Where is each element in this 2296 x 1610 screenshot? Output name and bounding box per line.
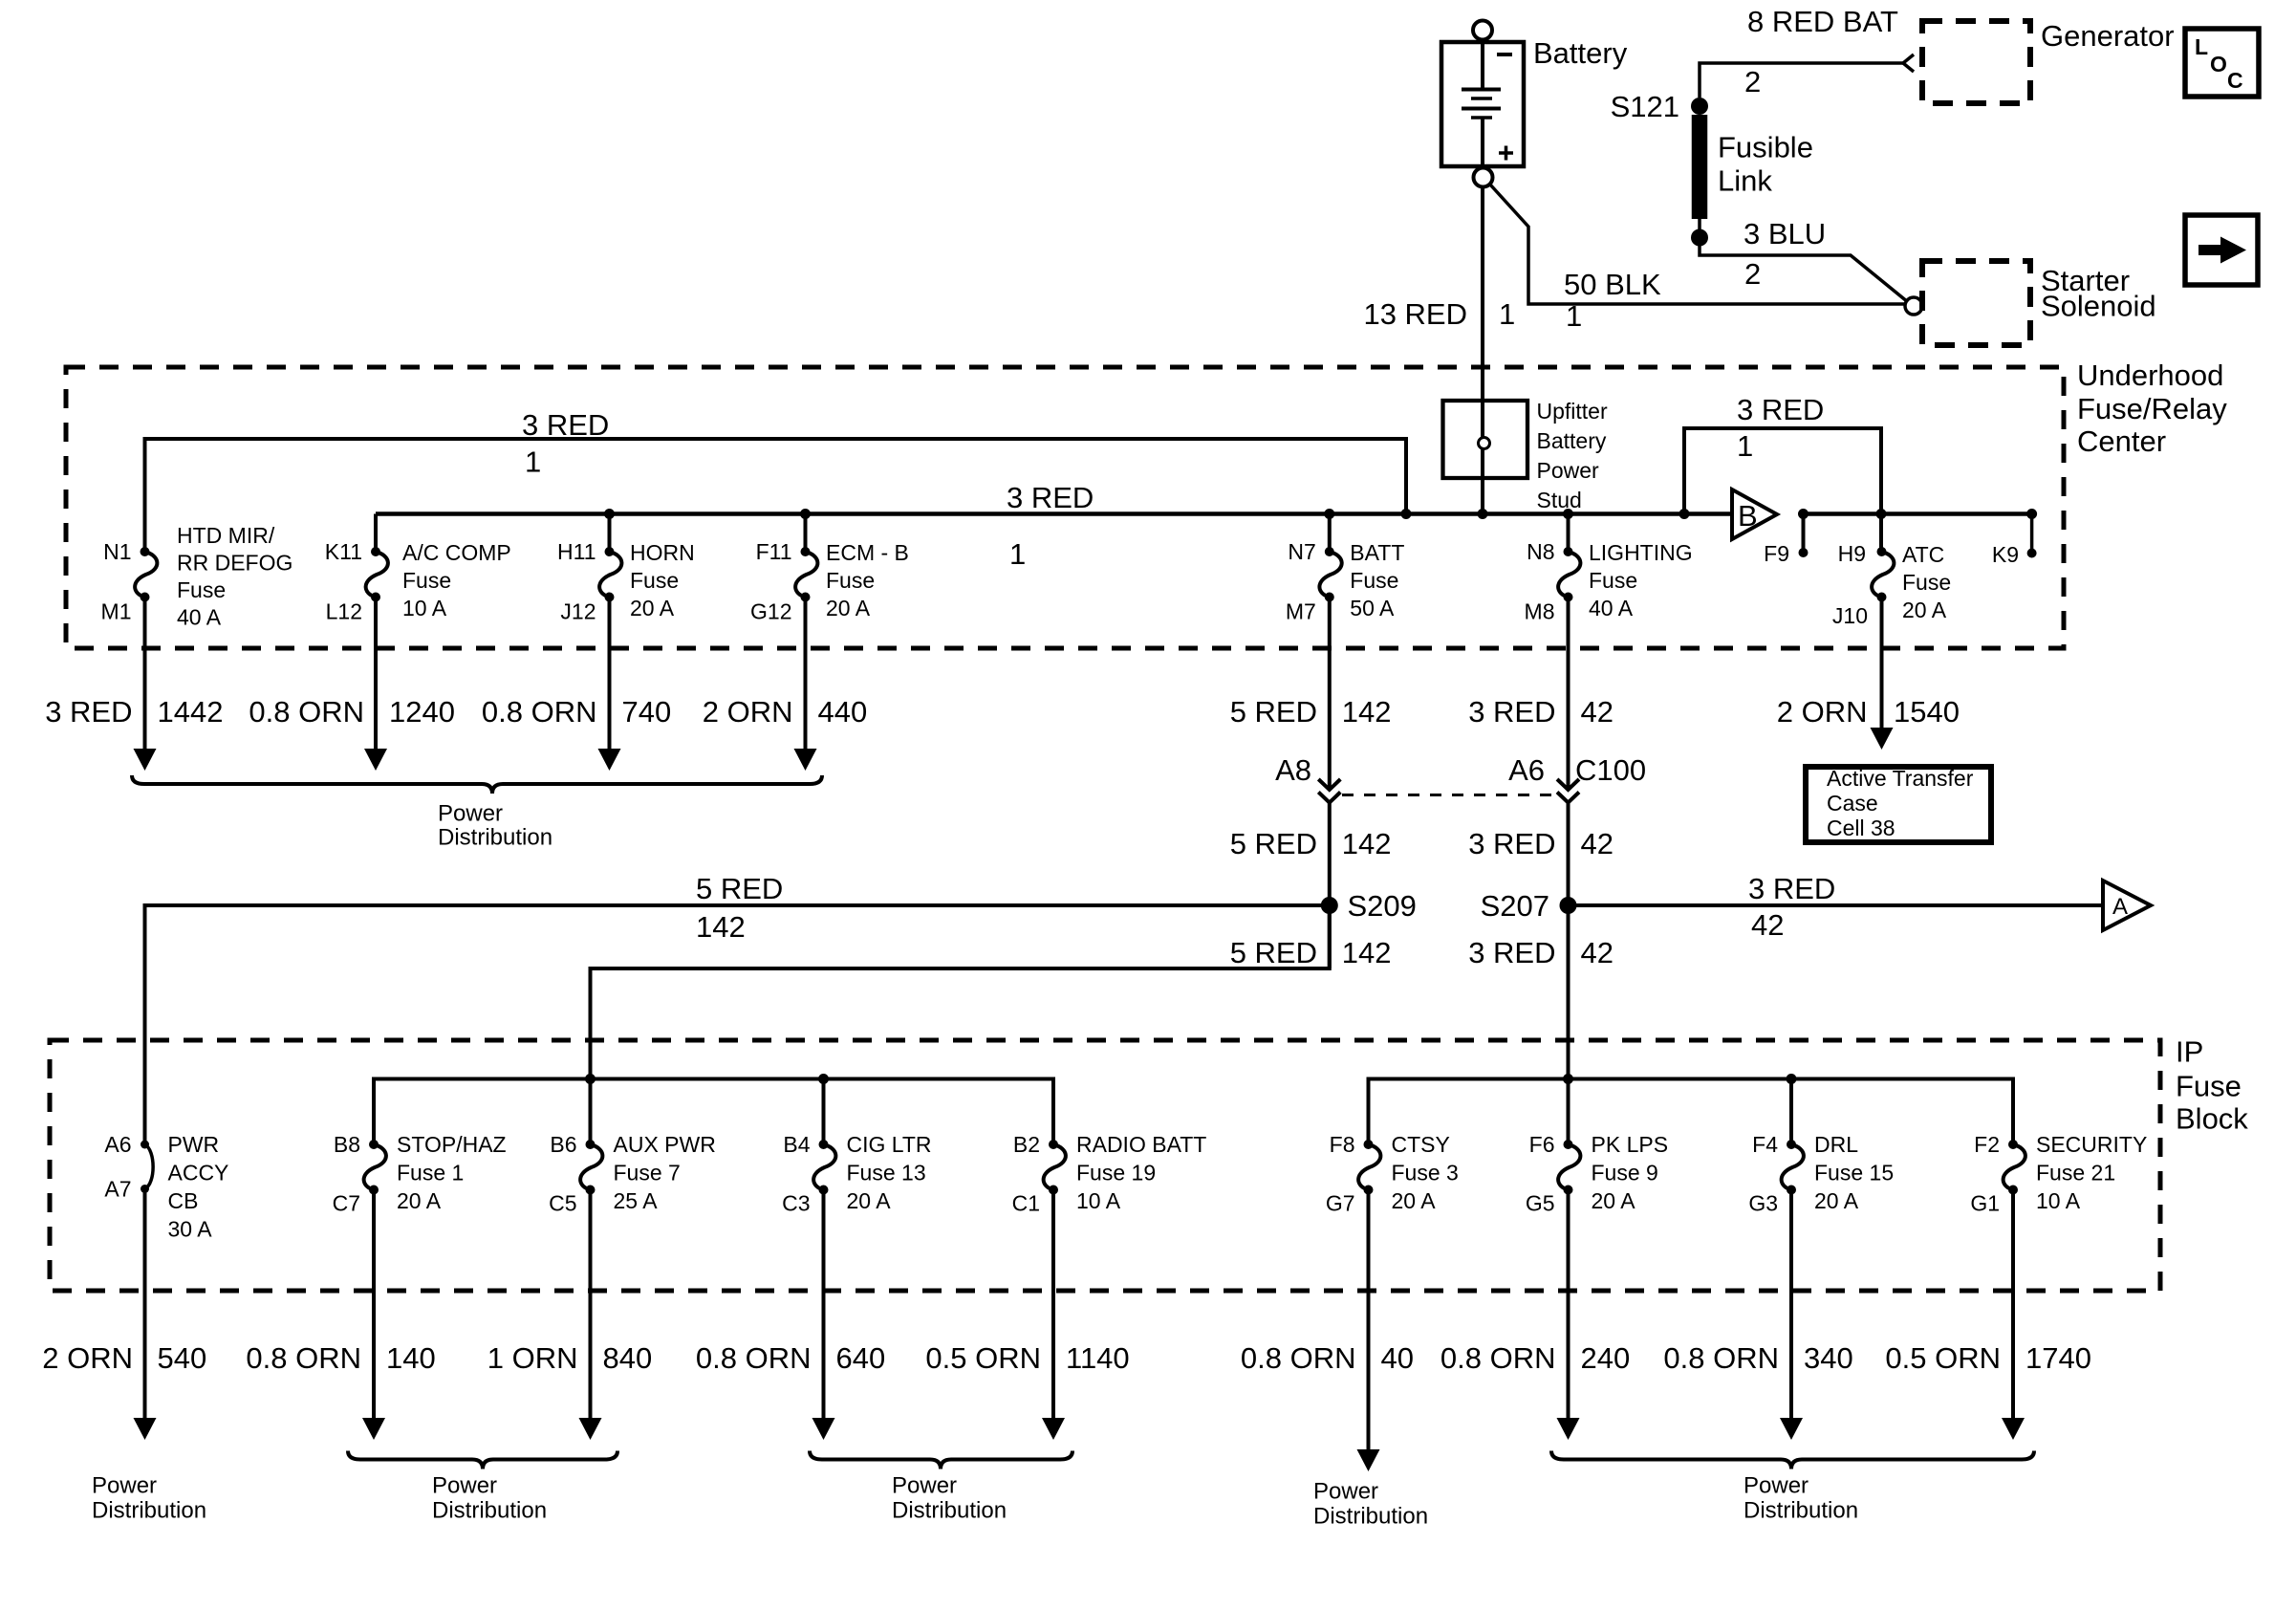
svg-text:DRL: DRL <box>1814 1132 1858 1157</box>
underhood fuse/relay center dashed box <box>66 367 2064 648</box>
svg-text:Fuse 7: Fuse 7 <box>614 1161 681 1186</box>
arrowhead C3 <box>812 1418 835 1440</box>
svg-text:Distribution: Distribution <box>892 1498 1007 1524</box>
ip branch bus right (ctsy to security) <box>1369 1079 2014 1145</box>
wire G7 to power distribution <box>1367 1190 1371 1450</box>
svg-text:640: 640 <box>836 1341 886 1375</box>
svg-text:20 A: 20 A <box>1902 598 1947 622</box>
fuse K11/L12 A/C COMP <box>366 547 388 602</box>
fuse B4/C3 CIG LTR <box>813 1140 835 1195</box>
wire 3 RED connector to S207 <box>1567 803 1570 1079</box>
svg-text:5 RED: 5 RED <box>1230 827 1317 860</box>
underhood bus wire 3 RED circuit 1 <box>376 511 1732 516</box>
wire 3 RED circuit 42 M8 to connector C100 A6 <box>1567 598 1570 791</box>
wire C7 to power distribution <box>372 1190 376 1419</box>
wire bus to fuse N7 <box>1328 514 1332 553</box>
arrowhead G12 <box>794 749 817 771</box>
label HTD MIR/RR DEFOG Fuse 40 A <box>177 523 292 630</box>
wire 8 RED BAT splice to generator <box>1700 63 1903 98</box>
wire G3 to power distribution <box>1789 1190 1793 1419</box>
svg-text:N7: N7 <box>1288 539 1315 564</box>
svg-text:J10: J10 <box>1832 603 1868 628</box>
arrowhead C5 <box>579 1418 602 1440</box>
svg-text:50 A: 50 A <box>1350 596 1395 620</box>
svg-text:STOP/HAZ: STOP/HAZ <box>397 1132 507 1157</box>
svg-text:20 A: 20 A <box>1814 1188 1859 1213</box>
svg-text:F8: F8 <box>1330 1132 1355 1157</box>
junction K9 bus end <box>2026 509 2037 519</box>
svg-text:142: 142 <box>1342 936 1392 969</box>
wire to F4 <box>1789 1079 1793 1145</box>
svg-text:C1: C1 <box>1012 1191 1040 1216</box>
svg-text:Solenoid: Solenoid <box>2041 290 2156 323</box>
label CIG LTR Fuse 13 20 A <box>847 1132 932 1213</box>
fuse B6/C5 AUX PWR <box>580 1140 602 1195</box>
svg-text:0.5 ORN: 0.5 ORN <box>1885 1341 2001 1375</box>
wire L12 to power distribution <box>374 598 378 750</box>
svg-text:3 RED: 3 RED <box>1468 936 1555 969</box>
off-page triangle A <box>2103 881 2151 930</box>
wire bus corner to A/C COMP fuse <box>374 514 378 553</box>
svg-text:H9: H9 <box>1838 541 1866 566</box>
svg-text:A6: A6 <box>1508 753 1545 787</box>
arrowhead G1 <box>2002 1418 2025 1440</box>
svg-text:3 RED: 3 RED <box>1468 695 1555 729</box>
svg-text:Power: Power <box>1744 1473 1809 1499</box>
svg-text:A7: A7 <box>104 1177 131 1202</box>
svg-text:Stud: Stud <box>1537 488 1582 512</box>
fusible link element <box>1692 115 1708 219</box>
svg-text:1442: 1442 <box>158 695 224 729</box>
connector chevron at generator <box>1903 54 1914 72</box>
svg-text:10 A: 10 A <box>2036 1188 2081 1213</box>
svg-text:Distribution: Distribution <box>432 1498 547 1524</box>
svg-text:Fuse 21: Fuse 21 <box>2036 1161 2115 1186</box>
label RADIO BATT Fuse 19 10 A <box>1076 1132 1206 1213</box>
ip fuse block dashed box <box>50 1040 2160 1291</box>
label A/C COMP Fuse 10 A <box>402 540 511 620</box>
junction on bus <box>604 509 615 519</box>
svg-text:K9: K9 <box>1992 542 2019 567</box>
wire J12 to power distribution <box>608 598 612 750</box>
svg-text:20 A: 20 A <box>1392 1188 1437 1213</box>
brace power distribution (underhood) <box>132 775 822 794</box>
label LIGHTING Fuse 40 A <box>1589 540 1693 620</box>
wire C3 to power distribution <box>822 1190 826 1419</box>
svg-text:Active Transfer: Active Transfer <box>1827 766 1974 791</box>
svg-text:2 ORN: 2 ORN <box>42 1341 133 1375</box>
svg-text:3 RED: 3 RED <box>45 695 132 729</box>
svg-text:1540: 1540 <box>1894 695 1960 729</box>
svg-text:G3: G3 <box>1748 1191 1778 1216</box>
svg-text:C7: C7 <box>333 1191 360 1216</box>
svg-text:M7: M7 <box>1286 599 1316 624</box>
starter solenoid terminal ring <box>1905 297 1922 315</box>
svg-text:Fuse 1: Fuse 1 <box>397 1161 464 1186</box>
svg-text:1240: 1240 <box>389 695 455 729</box>
svg-text:5 RED: 5 RED <box>696 872 783 905</box>
wire to F6 <box>1567 1079 1570 1145</box>
label DRL Fuse 15 20 A <box>1814 1132 1894 1213</box>
svg-text:F11: F11 <box>756 539 792 564</box>
label CTSY Fuse 3 20 A <box>1392 1132 1459 1213</box>
svg-text:B: B <box>1738 499 1758 533</box>
svg-text:Upfitter: Upfitter <box>1537 399 1608 424</box>
svg-text:540: 540 <box>158 1341 207 1375</box>
svg-text:30 A: 30 A <box>168 1217 213 1242</box>
svg-text:3 RED: 3 RED <box>522 408 609 442</box>
svg-text:20 A: 20 A <box>847 1188 892 1213</box>
svg-text:0.8 ORN: 0.8 ORN <box>696 1341 812 1375</box>
LOC legend box <box>2185 29 2259 97</box>
wire G12 to power distribution <box>804 598 808 750</box>
svg-text:F4: F4 <box>1752 1132 1778 1157</box>
svg-text:Fuse 13: Fuse 13 <box>847 1161 926 1186</box>
svg-text:5 RED: 5 RED <box>1230 695 1317 729</box>
fuse H11/J12 HORN <box>599 547 621 602</box>
svg-text:A/C COMP: A/C COMP <box>402 540 511 565</box>
svg-text:F2: F2 <box>1974 1132 2000 1157</box>
svg-text:Power: Power <box>92 1473 157 1499</box>
arrowhead G5 <box>1557 1418 1580 1440</box>
svg-text:Fuse 19: Fuse 19 <box>1076 1161 1156 1186</box>
svg-text:Fuse 9: Fuse 9 <box>1592 1161 1658 1186</box>
arrowhead 1540 <box>1871 728 1894 750</box>
wire 3 RED circuit 1 upper feed to HTD MIR fuse <box>145 439 1407 552</box>
svg-text:G5: G5 <box>1526 1191 1555 1216</box>
svg-text:1: 1 <box>1566 299 1582 333</box>
svg-text:50 BLK: 50 BLK <box>1564 268 1661 301</box>
fuse B2/C1 RADIO BATT <box>1044 1140 1066 1195</box>
svg-text:142: 142 <box>1342 695 1392 729</box>
dashed connector link C100 <box>1342 794 1556 796</box>
svg-text:3 BLU: 3 BLU <box>1744 217 1826 250</box>
connector C100 cavity A8 <box>1318 779 1340 790</box>
fuse H9/J10 ATC 20A <box>1872 547 1894 602</box>
svg-text:20 A: 20 A <box>630 596 675 620</box>
label SECURITY Fuse 21 10 A <box>2036 1132 2147 1213</box>
svg-text:SECURITY: SECURITY <box>2036 1132 2147 1157</box>
svg-text:0.8 ORN: 0.8 ORN <box>482 695 597 729</box>
label ATC Fuse 20 A <box>1902 542 1951 622</box>
svg-text:3 RED: 3 RED <box>1007 481 1094 514</box>
wire 5 RED connector to S209 <box>1328 803 1332 969</box>
connector C100 cavity A6 <box>1557 779 1579 790</box>
arrowhead M1 <box>134 749 157 771</box>
wire 3 BLU fusible link to starter solenoid <box>1700 219 1908 302</box>
svg-text:3 RED: 3 RED <box>1748 872 1835 905</box>
wire to B6 <box>589 1079 593 1145</box>
svg-text:RADIO BATT: RADIO BATT <box>1076 1132 1206 1157</box>
legend forward-arrow box <box>2185 215 2258 285</box>
svg-text:N8: N8 <box>1527 539 1554 564</box>
svg-text:Fuse: Fuse <box>826 568 875 593</box>
svg-text:G1: G1 <box>1970 1191 2000 1216</box>
svg-text:Distribution: Distribution <box>438 825 552 851</box>
svg-text:HORN: HORN <box>630 540 695 565</box>
junction B4 <box>818 1074 829 1084</box>
wire 5 RED S209 drop to IP stop/haz bus <box>591 905 1330 1079</box>
svg-text:Fuse/Relay: Fuse/Relay <box>2077 392 2227 425</box>
wire bus to fuse H11 <box>608 514 612 553</box>
svg-text:1: 1 <box>1737 429 1753 463</box>
svg-text:40 A: 40 A <box>177 605 222 630</box>
svg-text:40: 40 <box>1381 1341 1414 1375</box>
svg-text:Power: Power <box>438 801 503 827</box>
ip branch bus left (stop/haz to radio batt) <box>374 1079 1053 1145</box>
wire C1 to power distribution <box>1051 1190 1055 1419</box>
svg-text:0.8 ORN: 0.8 ORN <box>249 695 364 729</box>
svg-text:25 A: 25 A <box>614 1188 659 1213</box>
svg-text:Cell 38: Cell 38 <box>1827 816 1895 840</box>
svg-text:1: 1 <box>525 446 541 479</box>
svg-text:0.8 ORN: 0.8 ORN <box>1663 1341 1779 1375</box>
svg-text:PK LPS: PK LPS <box>1592 1132 1669 1157</box>
svg-text:S209: S209 <box>1348 889 1417 923</box>
svg-text:S121: S121 <box>1611 90 1679 123</box>
wire 13 RED battery to underhood bus <box>1481 187 1484 514</box>
svg-text:1 ORN: 1 ORN <box>487 1341 578 1375</box>
svg-text:L: L <box>2195 34 2208 59</box>
junction at battery feed <box>1478 509 1488 519</box>
svg-text:40 A: 40 A <box>1589 596 1634 620</box>
svg-text:Block: Block <box>2176 1102 2248 1136</box>
svg-text:B4: B4 <box>783 1132 810 1157</box>
svg-text:20 A: 20 A <box>1592 1188 1636 1213</box>
svg-text:Distribution: Distribution <box>1744 1498 1858 1524</box>
junction on bus <box>1324 509 1334 519</box>
svg-text:20 A: 20 A <box>397 1188 442 1213</box>
wire G5 to power distribution <box>1567 1190 1570 1419</box>
svg-text:A8: A8 <box>1275 753 1311 787</box>
fuse F11/G12 ECM - B <box>795 547 817 602</box>
fuse N8/M8 LIGHTING <box>1558 547 1580 602</box>
svg-text:B8: B8 <box>334 1132 360 1157</box>
fusible link lower splice dot <box>1691 229 1708 247</box>
pin K9 <box>2027 549 2037 558</box>
svg-text:5 RED: 5 RED <box>1230 936 1317 969</box>
label STOP/HAZ Fuse 1 20 A <box>397 1132 507 1213</box>
wire bus to fuse F11 <box>804 514 808 553</box>
svg-text:42: 42 <box>1581 695 1614 729</box>
svg-text:140: 140 <box>386 1341 436 1375</box>
wire bus right of relay B <box>1804 511 2032 516</box>
junction on bus <box>800 509 811 519</box>
svg-text:0.8 ORN: 0.8 ORN <box>1241 1341 1356 1375</box>
wire to B4 <box>822 1079 826 1145</box>
generator dashed box <box>1922 21 2030 103</box>
svg-text:AUX PWR: AUX PWR <box>614 1132 716 1157</box>
svg-text:F9: F9 <box>1764 541 1789 566</box>
svg-text:1: 1 <box>1499 297 1515 331</box>
svg-text:Power: Power <box>892 1473 957 1499</box>
svg-text:Distribution: Distribution <box>92 1498 206 1524</box>
svg-text:C5: C5 <box>549 1191 576 1216</box>
svg-text:2 ORN: 2 ORN <box>703 695 793 729</box>
svg-text:Fuse 3: Fuse 3 <box>1392 1161 1459 1186</box>
svg-text:1740: 1740 <box>2025 1341 2091 1375</box>
label ECM - B Fuse 20 A <box>826 540 909 620</box>
svg-text:0.8 ORN: 0.8 ORN <box>246 1341 361 1375</box>
svg-text:440: 440 <box>818 695 868 729</box>
fuse N1/M1 HTD MIR RR DEFOG 40A <box>135 547 157 602</box>
svg-text:240: 240 <box>1581 1341 1631 1375</box>
wire bus to ATC fuse <box>1879 514 1883 553</box>
svg-text:C: C <box>2227 68 2243 93</box>
fuse B8/C7 STOP/HAZ <box>364 1140 386 1195</box>
svg-text:142: 142 <box>696 910 746 944</box>
svg-text:740: 740 <box>622 695 672 729</box>
svg-text:Case: Case <box>1827 791 1878 816</box>
svg-text:CB: CB <box>168 1188 199 1213</box>
svg-text:Underhood: Underhood <box>2077 359 2223 392</box>
svg-text:3 RED: 3 RED <box>1737 393 1824 426</box>
fuse F8/G7 CTSY <box>1358 1140 1380 1195</box>
svg-text:Fuse 15: Fuse 15 <box>1814 1161 1894 1186</box>
wire 50 BLK battery to starter solenoid <box>1490 185 1906 305</box>
arrowhead G3 <box>1780 1418 1803 1440</box>
upfitter battery power stud box <box>1443 401 1528 478</box>
svg-text:L12: L12 <box>326 599 362 624</box>
fuse F6/G5 PK LPS <box>1558 1140 1580 1195</box>
arrowhead J12 <box>598 749 621 771</box>
svg-text:BATT: BATT <box>1350 540 1404 565</box>
svg-text:B2: B2 <box>1013 1132 1040 1157</box>
svg-text:Distribution: Distribution <box>1313 1504 1428 1530</box>
svg-text:HTD MIR/: HTD MIR/ <box>177 523 275 548</box>
svg-text:Battery: Battery <box>1537 428 1607 453</box>
svg-text:Fuse: Fuse <box>1350 568 1398 593</box>
wire G1 to power distribution <box>2011 1190 2015 1419</box>
svg-text:3 RED: 3 RED <box>1468 827 1555 860</box>
junction F9 <box>1798 509 1809 519</box>
svg-text:Fuse: Fuse <box>402 568 451 593</box>
wire 3 RED S207 to off-page A <box>1569 903 2104 907</box>
fuse F4/G3 DRL <box>1782 1140 1804 1195</box>
splice S121 <box>1691 98 1708 115</box>
fuse F2/G1 SECURITY <box>2004 1140 2025 1195</box>
battery G305 <box>1441 21 1524 187</box>
wire M1 to power distribution <box>143 598 147 750</box>
wire 5 RED S209 to IP PWR ACCY CB <box>145 905 1330 1144</box>
svg-text:Center: Center <box>2077 424 2166 458</box>
junction bypass left <box>1679 509 1690 519</box>
svg-text:Battery: Battery <box>1533 36 1628 70</box>
label BATT Fuse 50 A <box>1350 540 1404 620</box>
svg-text:O: O <box>2210 52 2227 76</box>
svg-text:2: 2 <box>1744 257 1761 291</box>
svg-text:S207: S207 <box>1481 889 1549 923</box>
svg-text:ATC: ATC <box>1902 542 1944 567</box>
svg-text:Generator: Generator <box>2041 19 2175 53</box>
svg-text:Fuse: Fuse <box>177 577 226 602</box>
svg-text:A: A <box>2112 894 2128 920</box>
svg-text:CIG LTR: CIG LTR <box>847 1132 932 1157</box>
arrowhead G7 <box>1357 1449 1380 1471</box>
svg-text:Power: Power <box>1313 1479 1378 1505</box>
svg-text:1140: 1140 <box>1066 1341 1130 1375</box>
arrowhead C7 <box>362 1418 385 1440</box>
junction on bus <box>1563 509 1573 519</box>
junction F6 feed <box>1563 1074 1573 1084</box>
svg-text:F6: F6 <box>1529 1132 1555 1157</box>
svg-text:840: 840 <box>603 1341 653 1375</box>
label Upfitter Battery Power Stud <box>1537 399 1608 512</box>
off-page triangle B <box>1732 490 1777 539</box>
label Active Transfer Case Cell 38 <box>1827 766 1974 840</box>
svg-text:13 RED: 13 RED <box>1363 297 1467 331</box>
svg-text:Fuse: Fuse <box>1589 568 1637 593</box>
junction F4 <box>1787 1074 1797 1084</box>
circuit breaker A6/A7 PWR ACCY CB 30A <box>141 1141 153 1194</box>
brace power distribution (640/1140) <box>810 1451 1072 1469</box>
splice S207 <box>1560 897 1577 914</box>
svg-text:M8: M8 <box>1525 599 1555 624</box>
svg-text:LIGHTING: LIGHTING <box>1589 540 1693 565</box>
svg-text:G7: G7 <box>1326 1191 1355 1216</box>
wire 2 ORN circuit 1540 J10 to active transfer case <box>1880 598 1884 729</box>
splice S209 <box>1321 897 1338 914</box>
svg-text:Power: Power <box>432 1473 497 1499</box>
starter solenoid dashed box <box>1922 261 2030 345</box>
active transfer case box <box>1806 767 1991 842</box>
wire bus to K9 <box>2030 514 2034 554</box>
arrowhead C1 <box>1042 1418 1065 1440</box>
svg-text:H11: H11 <box>557 539 596 564</box>
label AUX PWR Fuse 7 25 A <box>614 1132 716 1213</box>
label HORN Fuse 20 A <box>630 540 695 620</box>
svg-text:ECM - B: ECM - B <box>826 540 909 565</box>
svg-text:CTSY: CTSY <box>1392 1132 1450 1157</box>
svg-text:PWR: PWR <box>168 1132 220 1157</box>
svg-text:M1: M1 <box>101 599 132 624</box>
wire 3 RED circuit 1 bypass over relay B <box>1684 428 1881 514</box>
fuse N7/M7 BATT <box>1319 547 1341 602</box>
wire bus to F9 <box>1802 514 1806 554</box>
svg-text:0.5 ORN: 0.5 ORN <box>925 1341 1041 1375</box>
arrowhead A7 <box>134 1418 157 1440</box>
svg-text:N1: N1 <box>103 539 131 564</box>
svg-text:10 A: 10 A <box>402 596 447 620</box>
svg-text:Fuse: Fuse <box>2176 1070 2242 1103</box>
svg-text:ACCY: ACCY <box>168 1161 229 1186</box>
svg-text:10 A: 10 A <box>1076 1188 1121 1213</box>
wire 5 RED circuit 142 M7 to connector C100 A8 <box>1328 598 1332 791</box>
svg-text:Power: Power <box>1537 458 1600 483</box>
svg-text:2 ORN: 2 ORN <box>1777 695 1868 729</box>
junction B6 feed <box>585 1074 596 1084</box>
svg-text:42: 42 <box>1751 908 1784 942</box>
svg-text:Fusible: Fusible <box>1718 131 1813 164</box>
brace power distribution (240/340/1740) <box>1551 1451 2034 1469</box>
svg-text:RR DEFOG: RR DEFOG <box>177 551 292 576</box>
brace power distribution (140/840) <box>348 1451 617 1469</box>
svg-text:8 RED BAT: 8 RED BAT <box>1747 5 1898 38</box>
pin F9 <box>1799 548 1809 557</box>
wire C5 to power distribution <box>589 1190 593 1419</box>
svg-text:C100: C100 <box>1575 753 1646 787</box>
svg-text:2: 2 <box>1744 65 1761 98</box>
svg-text:Fuse: Fuse <box>1902 570 1951 595</box>
svg-text:42: 42 <box>1581 936 1614 969</box>
svg-text:42: 42 <box>1581 827 1614 860</box>
svg-text:Fuse: Fuse <box>630 568 679 593</box>
svg-text:IP: IP <box>2176 1035 2203 1069</box>
svg-text:0.8 ORN: 0.8 ORN <box>1440 1341 1556 1375</box>
junction at upper feed drop <box>1401 509 1412 519</box>
svg-text:Link: Link <box>1718 164 1772 198</box>
label PK LPS Fuse 9 20 A <box>1592 1132 1669 1213</box>
